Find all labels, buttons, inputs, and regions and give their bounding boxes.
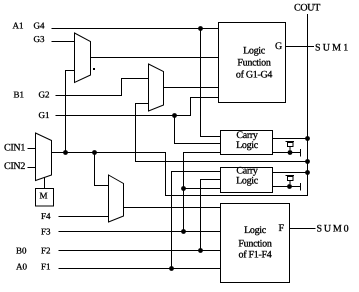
- svg-text:of F1-F4: of F1-F4: [239, 250, 272, 261]
- svg-text:G2: G2: [39, 90, 50, 100]
- svg-text:F3: F3: [41, 227, 51, 237]
- svg-text:COUT: COUT: [294, 3, 320, 14]
- svg-text:Function: Function: [238, 239, 271, 250]
- svg-text:Logic: Logic: [236, 176, 259, 187]
- svg-text:A0: A0: [16, 262, 27, 272]
- svg-text:of G1-G4: of G1-G4: [236, 70, 273, 81]
- svg-text:CIN2: CIN2: [4, 161, 25, 172]
- svg-text:SUM0: SUM0: [317, 224, 351, 235]
- svg-text:F2: F2: [41, 246, 51, 256]
- svg-text:G: G: [275, 41, 282, 52]
- svg-text:Function: Function: [237, 58, 270, 69]
- svg-text:A1: A1: [13, 21, 24, 31]
- svg-text:G4: G4: [34, 21, 45, 31]
- svg-text:B0: B0: [16, 246, 27, 256]
- svg-text:CIN1: CIN1: [4, 143, 25, 154]
- svg-text:F: F: [279, 223, 285, 234]
- svg-text:Logic: Logic: [236, 140, 259, 151]
- svg-text:G1: G1: [39, 110, 50, 120]
- svg-text:F4: F4: [41, 211, 51, 221]
- svg-text:B1: B1: [14, 90, 25, 100]
- svg-text:G3: G3: [34, 34, 45, 44]
- svg-text:Logic: Logic: [243, 46, 266, 57]
- svg-text:F1: F1: [41, 262, 51, 272]
- svg-text:Logic: Logic: [244, 225, 267, 236]
- svg-text:SUM1: SUM1: [315, 43, 350, 54]
- svg-text:M: M: [40, 191, 48, 201]
